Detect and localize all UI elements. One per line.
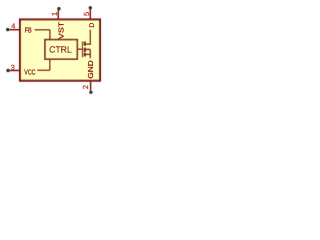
transistor Q1 channel segment bottom [84,53,87,57]
IC body [20,20,100,81]
transistor Q1 channel segment middle [84,48,87,52]
wire FB to CTRL vertical [49,30,51,40]
pin 2 GND wire [90,81,92,91]
svg-text:GND: GND [86,60,95,78]
wire CTRL to gate [77,48,82,50]
svg-text:VCC: VCC [24,67,35,76]
transistor Q1 gate bar [81,42,83,58]
pin 1 VST wire [57,10,59,19]
svg-text:4: 4 [11,21,15,30]
transistor Q1 body wire with arrow [86,48,90,50]
svg-text:CTRL: CTRL [49,45,72,55]
transistor Q1 channel segment top [84,41,87,45]
pin 2 end dot [89,91,92,94]
wire VCC to CTRL horizontal [37,69,50,71]
pin 5 end dot [89,6,92,9]
pin 3 VCC wire [10,70,20,72]
svg-text:5: 5 [82,12,91,16]
pin 4 FB wire [9,29,20,31]
transistor Q1 drain wire [86,30,90,44]
svg-text:FB: FB [25,26,32,35]
transistor Q1 source vertical [89,49,91,58]
transistor Q1 body arrow [86,48,88,50]
pin 1 end dot [57,7,60,10]
svg-text:2: 2 [81,85,90,89]
svg-text:3: 3 [11,63,15,72]
transistor Q1 source wire [86,53,90,55]
svg-text:1: 1 [50,12,59,16]
svg-text:VST: VST [56,21,65,39]
pin 4 end dot [6,28,9,31]
pin 5 D wire [89,10,91,20]
pin 3 end dot [6,69,9,72]
CTRL block [45,40,77,60]
wire VCC to CTRL vertical [49,59,51,70]
wire FB to CTRL horizontal [35,29,50,31]
svg-text:D: D [89,23,96,28]
